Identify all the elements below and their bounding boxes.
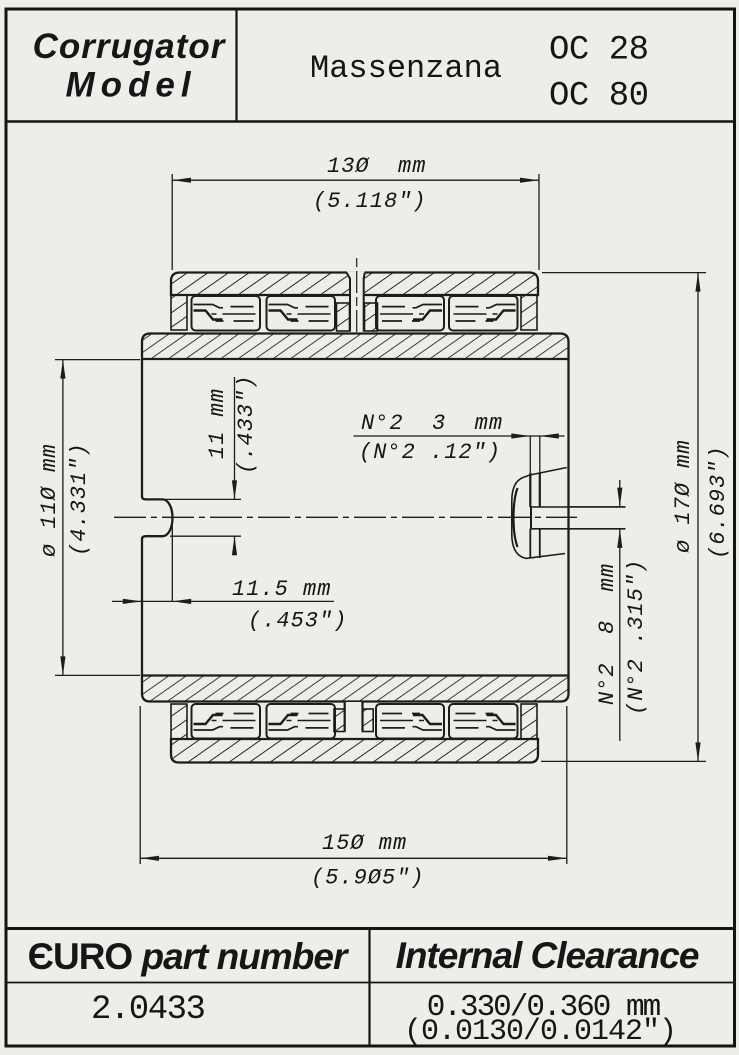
top center wedge left [337,303,350,331]
svg-text:(.453"): (.453") [248,609,347,634]
dimension 130 mm [172,174,539,270]
outer ring bottom left flange [171,704,187,739]
bottom spacer channel [345,702,363,738]
dimension 11.5 mm [112,523,334,601]
outer ring bottom right flange [521,704,537,739]
svg-text:OC 28: OC 28 [549,32,649,70]
svg-text:Corrugator: Corrugator [33,27,227,66]
sleeve left face with groove [142,359,173,676]
top center wedge right [365,303,378,331]
svg-text:OC 80: OC 80 [549,78,649,116]
roller top 2 [267,296,336,331]
svg-text:(4.331"): (4.331") [67,442,92,556]
bottom center wedge left [334,709,345,732]
sleeve right face [567,359,569,676]
svg-text:11 mm: 11 mm [205,388,230,459]
dimension N2 3 mm [354,435,565,437]
dimension dia 170 [541,273,706,762]
dimension 150 mm [140,706,567,864]
svg-text:Model: Model [65,66,196,105]
oil slot right [512,436,626,558]
header divider [235,9,237,122]
footer divider [368,929,370,1047]
svg-text:15Ø mm: 15Ø mm [322,831,407,856]
svg-text:ø 11Ø mm: ø 11Ø mm [37,443,62,557]
dimension dia 110 [55,360,140,676]
svg-text:(0.0130/0.0142"): (0.0130/0.0142") [404,1015,676,1049]
outer ring bottom band [171,739,538,763]
svg-text:(5.9Ø5"): (5.9Ø5") [311,866,425,891]
bottom center wedge right [363,709,374,732]
svg-text:ЄURO part number: ЄURO part number [28,936,350,977]
svg-text:N°2 8 mm: N°2 8 mm [595,563,620,705]
footer top rule [6,927,734,930]
roller bottom 4 [449,704,518,739]
inner ring bottom band [142,676,569,702]
funnel center mark [356,258,358,332]
svg-text:(.433"): (.433") [234,375,259,474]
outer ring top left flange [171,295,187,330]
header box bottom rule [6,120,734,123]
horizontal centerline [114,516,577,518]
roller bottom 2 [267,704,336,739]
oil funnel top [347,271,365,331]
svg-text:2.0433: 2.0433 [91,991,205,1029]
svg-text:Massenzana: Massenzana [310,50,502,87]
roller top 4 [449,296,518,331]
svg-text:13Ø mm: 13Ø mm [327,154,426,179]
inner ring top band [142,334,569,360]
outer ring top band [171,273,538,296]
svg-text:(N°2 .315"): (N°2 .315") [624,559,649,715]
svg-text:(5.118"): (5.118") [313,189,427,214]
dimension N2 8 mm [570,480,626,741]
roller bottom 3 [376,704,444,739]
svg-text:(N°2 .12"): (N°2 .12") [359,440,501,465]
svg-text:ø 17Ø mm: ø 17Ø mm [671,439,696,553]
svg-text:(6.693"): (6.693") [706,445,731,559]
svg-text:Internal Clearance: Internal Clearance [396,935,699,976]
svg-text:N°2 3 mm: N°2 3 mm [361,411,503,436]
svg-text:11.5 mm: 11.5 mm [232,577,331,602]
dimension 11 mm [165,377,241,553]
roller bottom 1 [192,704,261,739]
outer ring top right flange [521,295,537,330]
footer mid rule [6,982,734,984]
roller top 3 [376,296,444,331]
roller top 1 [192,296,261,331]
